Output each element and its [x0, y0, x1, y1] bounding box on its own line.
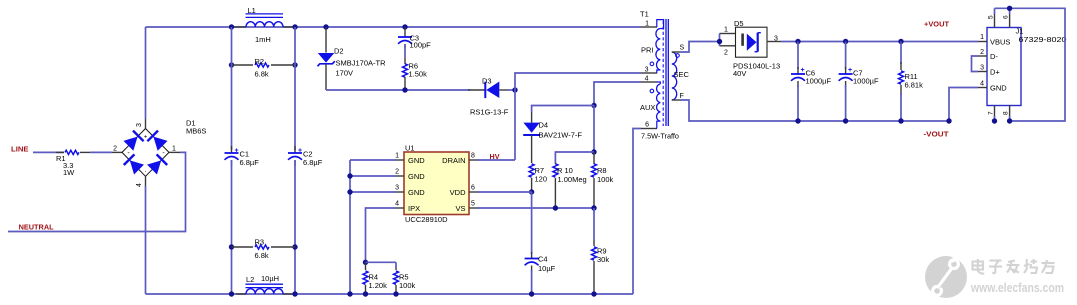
wire R10 top	[555, 152, 594, 163]
resistor R1	[56, 150, 90, 177]
svg-text:1W: 1W	[63, 168, 75, 177]
junction R3 left	[229, 244, 234, 249]
wire bridge pin1 to NEUTRAL	[8, 152, 186, 231]
inductor L1	[234, 6, 293, 44]
svg-text:4: 4	[645, 76, 649, 83]
svg-text:7: 7	[988, 111, 995, 115]
net label NEUTRAL	[19, 223, 55, 232]
svg-text:6.8k: 6.8k	[255, 70, 269, 79]
wire IPX	[366, 208, 397, 262]
svg-text:U1: U1	[405, 144, 415, 153]
wire C3 to R6	[404, 44, 406, 58]
wire C6	[797, 42, 799, 70]
J1 pin numbers	[980, 34, 984, 88]
diode D3	[468, 77, 509, 117]
U1 pin numbers	[395, 153, 475, 208]
wire GND rail	[349, 160, 351, 294]
junction aux node	[591, 103, 596, 108]
svg-text:VBUS: VBUS	[990, 38, 1010, 47]
svg-text:D5: D5	[734, 19, 744, 28]
svg-text:100pF: 100pF	[410, 41, 432, 50]
junction R5 bottom	[393, 291, 398, 296]
resistor R3	[232, 238, 296, 261]
capacitor C4	[525, 252, 556, 273]
T1 secondary polarity dot	[676, 54, 680, 58]
svg-text:MB6S: MB6S	[186, 126, 206, 135]
junction D2 top	[323, 24, 328, 29]
D5 pin 3	[767, 36, 781, 43]
wire R11 bottom	[900, 93, 902, 121]
junction R11 top	[898, 39, 903, 44]
svg-text:GND: GND	[408, 172, 425, 181]
resistor R6	[403, 58, 428, 90]
junction J1 pin8	[1007, 118, 1012, 123]
svg-text:D2: D2	[334, 47, 344, 56]
wire bottom rail to T1 pin6	[633, 129, 641, 295]
junction gnd pin3	[347, 189, 352, 194]
junction R8 bottom	[591, 205, 596, 210]
junction R3 right	[292, 244, 297, 249]
wire aux node down to R8	[593, 106, 595, 153]
svg-text:3: 3	[980, 65, 984, 72]
capacitor C3	[398, 27, 431, 50]
pin stub bridge 2	[112, 151, 122, 153]
svg-text:-: -	[127, 150, 130, 157]
resistor R9	[592, 240, 610, 294]
T1 pin stubs	[641, 27, 657, 129]
svg-text:GND: GND	[408, 156, 425, 165]
junction shield top	[1007, 6, 1012, 11]
net label +VOUT	[924, 20, 950, 29]
bridge D1 diode top-left	[123, 131, 144, 152]
wire secondary F	[672, 100, 949, 121]
wire C4 bottom	[531, 270, 533, 294]
junction C4 bottom	[529, 291, 534, 296]
resistor R7	[529, 164, 547, 192]
svg-text:1: 1	[172, 146, 176, 153]
wire VDD	[477, 191, 532, 193]
svg-text:PRI: PRI	[641, 46, 654, 55]
svg-text:R8: R8	[597, 166, 607, 175]
svg-text:3: 3	[395, 185, 399, 192]
wire top rail	[146, 26, 642, 28]
svg-text:BAV21W-7-F: BAV21W-7-F	[539, 131, 583, 140]
svg-text:6: 6	[645, 122, 649, 129]
T1 primary polarity dot	[650, 62, 654, 66]
svg-text:D3: D3	[482, 77, 492, 86]
svg-text:6.8µF: 6.8µF	[240, 158, 260, 167]
wire LINE to R1	[33, 151, 64, 153]
svg-text:L2: L2	[246, 275, 254, 284]
svg-text:100k: 100k	[399, 281, 416, 290]
svg-text:UCC28910D: UCC28910D	[405, 215, 448, 224]
wire bottom rail left	[146, 293, 634, 295]
junction C1 top	[229, 24, 234, 29]
svg-text:3: 3	[136, 123, 143, 127]
svg-text:3: 3	[774, 36, 778, 43]
diode D2 TVS	[318, 27, 387, 90]
svg-text:R 10: R 10	[557, 166, 573, 175]
svg-text:8: 8	[1003, 111, 1010, 115]
svg-text:7.5W-Traffo: 7.5W-Traffo	[641, 131, 679, 140]
svg-text:AUX: AUX	[640, 103, 655, 112]
svg-text:D-: D-	[990, 52, 998, 61]
wire HV node to T1 pin3	[515, 73, 641, 90]
svg-text:F: F	[680, 93, 684, 100]
svg-text:40V: 40V	[733, 69, 746, 78]
wire VS node to R9	[593, 208, 595, 240]
svg-text:+: +	[801, 67, 805, 74]
wire C7 bottom	[845, 85, 847, 121]
svg-text:5: 5	[471, 201, 475, 208]
wire C2 rail lower	[294, 160, 296, 294]
junction C6 top	[795, 39, 800, 44]
wire C7	[845, 42, 847, 70]
svg-text:170V: 170V	[336, 69, 354, 78]
svg-text:R3: R3	[255, 238, 265, 247]
wire VDD to C4	[531, 192, 533, 254]
wire J1 GND	[949, 88, 978, 122]
T1 pin F label	[680, 93, 684, 100]
svg-text:R2: R2	[255, 57, 265, 66]
svg-text:4: 4	[980, 81, 984, 88]
junction R11 bottom	[898, 118, 903, 123]
svg-text:6: 6	[1003, 15, 1010, 19]
junction R10 bottom	[553, 205, 558, 210]
svg-text:2: 2	[980, 49, 984, 56]
svg-text:30k: 30k	[597, 255, 609, 264]
T1 pin numbers	[645, 21, 650, 129]
wire secondary S	[672, 42, 712, 53]
wire C1 rail lower	[231, 160, 233, 294]
svg-text:RS1G-13-F: RS1G-13-F	[470, 108, 509, 117]
wire pin2 gnd	[350, 175, 396, 177]
junction gnd bottom	[347, 291, 352, 296]
wire R4 R5 top	[366, 262, 397, 268]
svg-text:1: 1	[395, 153, 399, 160]
wire +VOUT rail	[781, 41, 978, 43]
svg-text:4: 4	[136, 183, 143, 187]
svg-text:5: 5	[988, 15, 995, 19]
junction C7 bottom	[843, 118, 848, 123]
junction R2 left	[229, 62, 234, 67]
junction IPX node	[363, 260, 368, 265]
junction R9 bottom	[591, 291, 596, 296]
wire C2 rail upper	[294, 27, 296, 150]
bridge D1 diode top-right	[147, 131, 168, 152]
U1 pin names	[408, 156, 466, 213]
T1 secondary winding	[672, 52, 690, 100]
svg-text:6.8k: 6.8k	[255, 251, 269, 260]
diode D5 package	[733, 19, 780, 78]
wire C6 bottom	[797, 85, 799, 121]
junction GND rail	[946, 118, 951, 123]
bridge D1 diode bottom-right	[147, 154, 168, 175]
net label HV	[490, 152, 500, 161]
svg-text:2: 2	[724, 50, 728, 57]
J1 shield pins top	[988, 8, 1010, 27]
junction C3 top	[402, 24, 407, 29]
bridge D1 outline	[122, 129, 169, 177]
svg-text:T1: T1	[640, 10, 649, 19]
svg-text:L1: L1	[248, 6, 256, 15]
svg-text:+VOUT: +VOUT	[924, 20, 950, 29]
junction R6 bottom	[402, 87, 407, 92]
svg-text:+: +	[298, 147, 302, 154]
svg-text:VDD: VDD	[450, 188, 466, 197]
wire DRAIN to HV	[477, 90, 515, 160]
connector J1 body	[987, 27, 1067, 106]
svg-text:1.20k: 1.20k	[369, 281, 388, 290]
svg-text:100k: 100k	[597, 175, 614, 184]
U1 pin stubs right	[469, 160, 477, 208]
svg-text:1: 1	[724, 27, 728, 34]
capacitor C7	[839, 67, 879, 87]
svg-text:NEUTRAL: NEUTRAL	[19, 223, 55, 232]
wire R1 to bridge pin 2	[90, 151, 112, 153]
junction R8 top	[591, 149, 596, 154]
svg-text:67329-8020: 67329-8020	[1019, 35, 1067, 44]
svg-text:DRAIN: DRAIN	[442, 156, 465, 165]
svg-text:10µF: 10µF	[538, 264, 556, 273]
pin 4 label	[136, 183, 143, 187]
J1 pin names	[990, 38, 1010, 93]
svg-text:1000µF: 1000µF	[806, 77, 832, 86]
D5 diode symbol	[741, 33, 761, 52]
svg-text:SEC: SEC	[674, 70, 690, 79]
resistor R11	[899, 42, 924, 96]
U1 pin stubs left	[396, 160, 404, 208]
J1 pin stubs left	[978, 42, 987, 88]
junction VDD node	[529, 189, 534, 194]
T1 aux polarity dot	[650, 89, 654, 93]
transformer T1 label	[640, 10, 679, 141]
J1 shield pins bottom	[988, 106, 1010, 122]
svg-text:GND: GND	[990, 84, 1007, 93]
op-amp U1 body	[404, 144, 469, 225]
svg-text:3: 3	[645, 67, 649, 74]
junction C1 bottom	[229, 291, 234, 296]
svg-text:www.elecfans.com: www.elecfans.com	[970, 281, 1064, 295]
diode D4	[523, 112, 582, 163]
wire D- D+ tie	[972, 56, 979, 72]
svg-text:10µH: 10µH	[261, 274, 279, 283]
junction gnd pin2	[347, 173, 352, 178]
svg-text:+: +	[848, 67, 852, 74]
svg-text:8: 8	[471, 153, 475, 160]
svg-text:.: .	[145, 167, 147, 174]
junction R4 bottom	[363, 291, 368, 296]
junction C2 top	[292, 24, 297, 29]
net label -VOUT	[924, 130, 950, 139]
wire aux to D4	[532, 106, 594, 113]
D5 pins 1 2 bracket	[712, 27, 736, 57]
svg-text:2: 2	[395, 169, 399, 176]
svg-text:1000µF: 1000µF	[853, 77, 879, 86]
svg-text:1mH: 1mH	[255, 35, 271, 44]
svg-text:SMBJ170A-TR: SMBJ170A-TR	[336, 59, 387, 68]
pin stub bridge 1	[169, 151, 180, 153]
junction HV node	[512, 87, 517, 92]
capacitor C1	[225, 146, 260, 167]
wire pin3 gnd	[350, 191, 396, 193]
net label LINE	[11, 145, 29, 154]
svg-text:+: +	[235, 147, 239, 154]
svg-text:LINE: LINE	[11, 145, 29, 154]
wire T1 pin4 to node	[594, 82, 641, 106]
svg-text:1.50k: 1.50k	[409, 70, 428, 79]
svg-text:+: +	[144, 135, 148, 141]
wire pin1 gnd	[350, 159, 396, 161]
svg-text:C4: C4	[538, 255, 548, 264]
pin stub bridge 4	[145, 176, 147, 186]
junction C2 bottom	[292, 291, 297, 296]
resistor R5	[394, 268, 416, 294]
pin 3 label	[136, 123, 143, 127]
junction J1 pin7	[992, 118, 997, 123]
junction C7 top	[843, 39, 848, 44]
pin 1 label	[172, 146, 176, 153]
wire D3 to HV node	[508, 89, 515, 91]
bridge D1 polarity marks	[127, 135, 165, 175]
resistor R8	[592, 152, 614, 208]
T1 aux winding	[640, 82, 660, 129]
svg-text:1.00Meg: 1.00Meg	[558, 175, 587, 184]
wire C1 rail upper	[231, 27, 233, 150]
wire bridge bottom	[145, 186, 147, 294]
svg-text:D+: D+	[990, 68, 1000, 77]
wire snubber row	[326, 89, 470, 91]
decorative watermark	[925, 254, 1064, 298]
svg-text:1: 1	[980, 34, 984, 41]
junction C6 bottom	[795, 118, 800, 123]
bridge D1 label	[186, 119, 206, 136]
junction D5 input	[717, 39, 722, 44]
svg-text:4: 4	[395, 201, 399, 208]
capacitor C6	[791, 67, 832, 87]
junction R2 right	[292, 62, 297, 67]
inductor L2	[236, 274, 292, 294]
svg-text:2: 2	[113, 146, 117, 153]
bridge D1 diode bottom-left	[124, 154, 145, 175]
pin stub bridge 3	[145, 119, 147, 129]
svg-text:D4: D4	[539, 121, 549, 130]
svg-text:IPX: IPX	[408, 204, 420, 213]
svg-text:-VOUT: -VOUT	[924, 130, 950, 139]
wire bridge top	[145, 27, 147, 119]
svg-text:6: 6	[471, 185, 475, 192]
capacitor C2	[288, 146, 323, 167]
wire VS	[477, 207, 594, 209]
svg-text:120: 120	[535, 175, 548, 184]
resistor R4	[363, 262, 387, 294]
pin 2 label	[113, 146, 117, 153]
resistor R10	[553, 163, 587, 208]
svg-text:6.8µF: 6.8µF	[303, 158, 323, 167]
svg-text:6.81k: 6.81k	[905, 81, 924, 90]
T1 primary winding	[641, 20, 664, 73]
resistor R2	[232, 57, 296, 79]
T1 core	[663, 19, 668, 126]
svg-text:1: 1	[645, 21, 649, 28]
svg-text:S: S	[680, 45, 685, 52]
svg-text:GND: GND	[408, 188, 425, 197]
wire shield loop	[995, 8, 1066, 121]
T1 pin S label	[680, 45, 685, 52]
svg-text:VS: VS	[455, 204, 465, 213]
